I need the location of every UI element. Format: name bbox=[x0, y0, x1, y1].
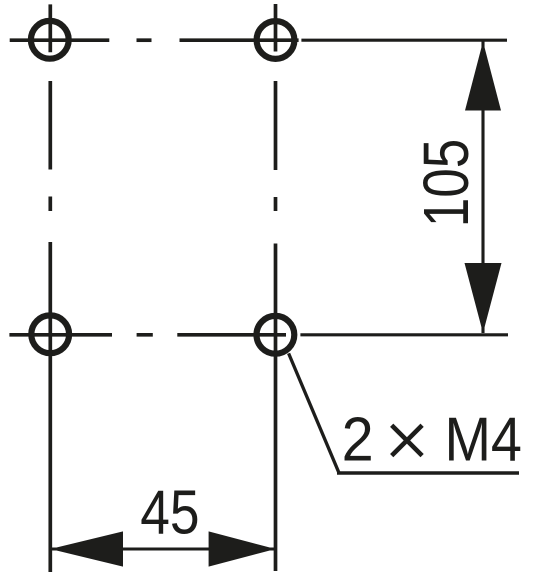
hole top-right bbox=[257, 21, 295, 59]
centerline horizontal bottom: short dash bbox=[137, 333, 153, 337]
centerline vertical left: short dash bbox=[48, 197, 52, 212]
leader underline 2xM4 bbox=[337, 471, 519, 474]
arrowhead 45 left bbox=[50, 531, 123, 566]
centerline vertical left: long dash bbox=[48, 81, 52, 170]
centerline horizontal top: long dash through top-right hole bbox=[180, 38, 299, 42]
arrowhead 105 bottom bbox=[465, 263, 502, 333]
hole bottom-left bbox=[31, 315, 69, 353]
centerline horizontal top: short dash bbox=[137, 38, 152, 42]
centerline horizontal top: long dash through top-left hole bbox=[10, 38, 110, 42]
svg-text:2: 2 bbox=[342, 404, 374, 473]
hole top-left bbox=[31, 21, 69, 59]
svg-text:45: 45 bbox=[140, 479, 199, 548]
centerline vertical left: dash through top-left hole bbox=[48, 4, 52, 52]
multiplication sign x (of 2 x M4) bbox=[392, 425, 422, 455]
centerline vertical left: long dash through bottom-left hole down to dimension bbox=[48, 242, 52, 572]
dimension line 45 (horizontal, bottom) bbox=[50, 547, 275, 550]
centerline vertical right: short dash bbox=[274, 197, 278, 211]
arrowhead 45 right bbox=[209, 531, 276, 566]
centerline horizontal bottom: long dash through bottom-right hole bbox=[177, 333, 286, 337]
svg-text:105: 105 bbox=[411, 139, 482, 228]
dimension line 105 (vertical, right) bbox=[481, 42, 484, 334]
leader line to 2xM4 bbox=[289, 353, 339, 472]
centerline vertical right: long dash bbox=[274, 81, 278, 170]
hole bottom-right bbox=[257, 316, 295, 354]
svg-text:M4: M4 bbox=[444, 406, 522, 474]
centerline horizontal bottom: long dash through bottom-left hole bbox=[9, 333, 112, 337]
arrowhead 105 top bbox=[465, 42, 501, 111]
centerline vertical right: dash through top-right hole bbox=[274, 4, 278, 52]
extension line top (to 105 dimension) bbox=[301, 39, 507, 42]
extension line bottom (to 105 dimension) bbox=[300, 333, 508, 336]
centerline vertical right: long dash through bottom-right hole down to dimension bbox=[274, 244, 278, 572]
